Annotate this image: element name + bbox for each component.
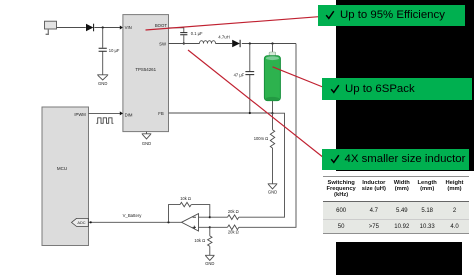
- wire shunt leads: [272, 113, 274, 183]
- node ADC wire: [90, 221, 92, 223]
- wire battery leads: [272, 44, 274, 114]
- svg-text:IPWM: IPWM: [74, 112, 86, 117]
- wire boot cap to SW: [183, 35, 185, 43]
- resistor R3 20k top: [228, 209, 239, 219]
- callout line inductor: [188, 50, 324, 158]
- capacitor C1 10uF: [99, 48, 120, 53]
- wire input cap branch: [102, 28, 104, 75]
- node battery top: [271, 42, 273, 44]
- spec table: [319, 171, 474, 240]
- callout box inductor: [322, 149, 469, 169]
- svg-text:47 µF: 47 µF: [234, 72, 245, 77]
- ground input cap: [97, 75, 108, 86]
- svg-text:10k Ω: 10k Ω: [194, 238, 205, 243]
- svg-text:VIN: VIN: [125, 25, 132, 30]
- battery BT1: [264, 52, 280, 101]
- pwm waveform symbol: [96, 118, 113, 124]
- wire to gnd 10k: [209, 227, 211, 236]
- wire diode to VIN: [94, 27, 120, 29]
- resistor R1 100m ohm: [254, 130, 275, 148]
- wire adapter to diode: [57, 27, 86, 29]
- ground IC: [142, 132, 152, 146]
- node inverting input: [209, 216, 211, 218]
- node FB-outcap: [249, 112, 251, 114]
- inductor L1 4.7uH: [200, 35, 230, 44]
- wire BOOT to boot cap: [169, 28, 184, 32]
- svg-text:V_Battery: V_Battery: [123, 213, 143, 218]
- wire battery+ sense drop: [239, 44, 296, 228]
- wire FB rail: [169, 112, 273, 114]
- svg-text:DIM: DIM: [125, 113, 133, 118]
- node feedback output: [167, 221, 169, 223]
- resistor R2 10k: [180, 196, 191, 207]
- wire op-amp input stubs: [199, 217, 210, 227]
- AC adapter J1: [45, 21, 57, 34]
- svg-text:20k Ω: 20k Ω: [228, 209, 239, 214]
- node input rail: [102, 26, 104, 28]
- svg-text:GND: GND: [205, 261, 214, 266]
- wire battery- sense jog: [239, 113, 285, 217]
- ADC port tag: [72, 218, 89, 226]
- capacitor C2 0.1uF: [180, 31, 203, 36]
- regulator IC U1 TPS54261: [123, 15, 169, 132]
- svg-text:4.7uH: 4.7uH: [218, 35, 229, 40]
- svg-text:MCU: MCU: [57, 166, 67, 171]
- DIM pin arrow: [120, 111, 123, 115]
- node battery bottom: [271, 112, 273, 114]
- svg-text:ADC: ADC: [77, 220, 85, 225]
- ground op-amp divider: [205, 246, 215, 266]
- svg-text:GND: GND: [98, 81, 107, 86]
- callout box efficiency: [318, 5, 465, 26]
- wire ADC to op-amp output: [89, 221, 182, 223]
- black panel bottom: [336, 242, 462, 275]
- diode D1: [86, 24, 94, 32]
- callout line efficiency: [146, 16, 323, 30]
- node non-inverting input: [209, 226, 211, 228]
- svg-text:GND: GND: [268, 190, 277, 195]
- svg-text:FB: FB: [158, 111, 164, 116]
- MCU block: [42, 107, 89, 246]
- callout box 6S pack: [322, 78, 472, 100]
- svg-text:10 µF: 10 µF: [109, 48, 120, 53]
- wire feedback loop: [169, 205, 210, 223]
- black panel top: [336, 0, 474, 171]
- svg-text:20k Ω: 20k Ω: [228, 230, 239, 235]
- wire IPWM to DIM: [89, 112, 121, 114]
- callout line battery: [273, 67, 325, 88]
- wire SW rail: [169, 43, 297, 45]
- svg-text:10k Ω: 10k Ω: [180, 196, 191, 201]
- svg-text:TPS54261: TPS54261: [135, 67, 156, 72]
- svg-text:100m Ω: 100m Ω: [254, 136, 268, 141]
- diode D2: [232, 40, 240, 47]
- wire to top 20k: [210, 216, 228, 218]
- node output cap top: [249, 42, 251, 44]
- svg-text:GND: GND: [142, 141, 151, 146]
- node boot-SW: [183, 42, 185, 44]
- wire to bottom 20k: [210, 226, 228, 228]
- svg-text:BOOT: BOOT: [155, 23, 168, 28]
- ground shunt: [268, 184, 278, 195]
- resistor R4 20k bottom: [228, 225, 239, 235]
- resistor R5 10k: [194, 236, 212, 246]
- svg-text:0.1 µF: 0.1 µF: [191, 31, 203, 36]
- op-amp U2: [182, 214, 199, 231]
- wire output cap branch: [249, 44, 251, 114]
- capacitor C3 47uF: [234, 72, 255, 78]
- VIN pin arrow: [120, 26, 123, 30]
- svg-text:SW: SW: [159, 42, 167, 47]
